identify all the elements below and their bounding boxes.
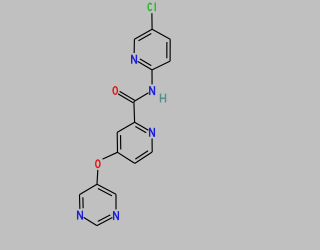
- atom label O (carbonyl oxygen): [113, 87, 117, 95]
- double bond N1=C2 (chloropyridine): [138, 59, 152, 70]
- double bond C4=C3 (pyridine): [117, 132, 121, 152]
- atom label N1 (pyrimidine nitrogen): [78, 211, 83, 220]
- bond C4-N3 (pyrimidine): [115, 194, 117, 209]
- double bond N1=C6 (pyrimidine): [80, 195, 84, 209]
- bond C4-O ether: [103, 152, 118, 159]
- bond C2-C3 (chloropyridine): [152, 61, 170, 70]
- bond O-C5 (pyrimidine): [96, 170, 99, 184]
- atom label N3 (pyrimidine nitrogen): [114, 211, 119, 220]
- double bond C5=C4 (pyrimidine): [97, 184, 116, 196]
- bond C3-C2 (pyridine): [117, 122, 134, 132]
- double bond N3=C2 (pyrimidine): [97, 215, 113, 226]
- bond C5-C4 (pyridine): [118, 152, 135, 163]
- double bond C2=N1 (pyridine): [135, 122, 149, 133]
- bond Cl-C5 (chloropyridine): [151, 13, 153, 29]
- bond C6-C5 (pyrimidine): [80, 184, 98, 194]
- atom label N1 (chloropyridine nitrogen): [132, 55, 137, 64]
- bond C6-N1 (chloropyridine): [133, 39, 135, 53]
- bond C4-C5 (chloropyridine): [152, 29, 170, 39]
- bond N1-C6 (pyridine): [151, 139, 153, 153]
- molecule structure drawing: [0, 0, 250, 250]
- atom label O (ether oxygen): [96, 160, 100, 168]
- bond C2-N1 (pyrimidine): [84, 217, 97, 225]
- atom label N1 (pyridine nitrogen): [150, 128, 155, 137]
- double bond C3=C4 (chloropyridine): [167, 39, 170, 61]
- double bond C=O carbonyl: [118, 91, 135, 102]
- bond carbonyl C-C2 (pyridine): [133, 102, 136, 123]
- double bond C5=C6 (chloropyridine): [134, 29, 152, 41]
- atom label Cl (chlorine): [148, 2, 155, 11]
- bond C2-N amide: [151, 70, 153, 85]
- atom label N (amide nitrogen): [150, 86, 155, 95]
- double bond C6=C5 (pyridine): [135, 151, 152, 164]
- atom label H (amide hydrogen): [161, 94, 166, 103]
- bond N-C carbonyl: [134, 93, 149, 102]
